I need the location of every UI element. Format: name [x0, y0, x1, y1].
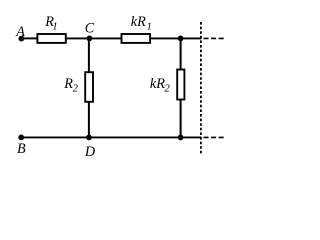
wire C down to R2	[88, 38, 90, 72]
svg-text:B: B	[17, 141, 26, 157]
resistor R1	[37, 34, 65, 43]
resistor R2	[85, 72, 93, 102]
svg-text:1: 1	[147, 22, 152, 33]
wire dashed top-right continuation	[204, 37, 226, 39]
wire dashed vertical boundary line	[200, 22, 202, 154]
node A	[19, 36, 25, 42]
wire top-right junction down to kR2	[180, 38, 182, 69]
node D	[86, 135, 92, 141]
node B	[18, 135, 24, 141]
node C	[87, 36, 93, 42]
node bottom-right junction	[178, 135, 184, 141]
wire R2 down to D	[88, 102, 90, 137]
node top-right junction	[178, 36, 184, 42]
resistor kR2	[177, 70, 184, 100]
svg-text:2: 2	[73, 83, 79, 94]
svg-text:A: A	[15, 24, 25, 40]
svg-text:C: C	[85, 20, 95, 36]
svg-text:kR: kR	[131, 14, 146, 30]
svg-text:2: 2	[165, 83, 171, 94]
svg-text:D: D	[84, 144, 96, 160]
wire bottom B to right edge	[21, 136, 201, 138]
wire kR1 to right edge	[150, 37, 201, 39]
wire R1 to kR1	[66, 37, 122, 39]
svg-text:1: 1	[52, 22, 57, 33]
svg-text:kR: kR	[150, 76, 165, 92]
wire dashed bottom-right continuation	[204, 136, 226, 138]
wire kR2 down to bottom junction	[180, 100, 182, 138]
resistor kR1	[122, 34, 151, 43]
wire A to R1	[21, 37, 37, 39]
